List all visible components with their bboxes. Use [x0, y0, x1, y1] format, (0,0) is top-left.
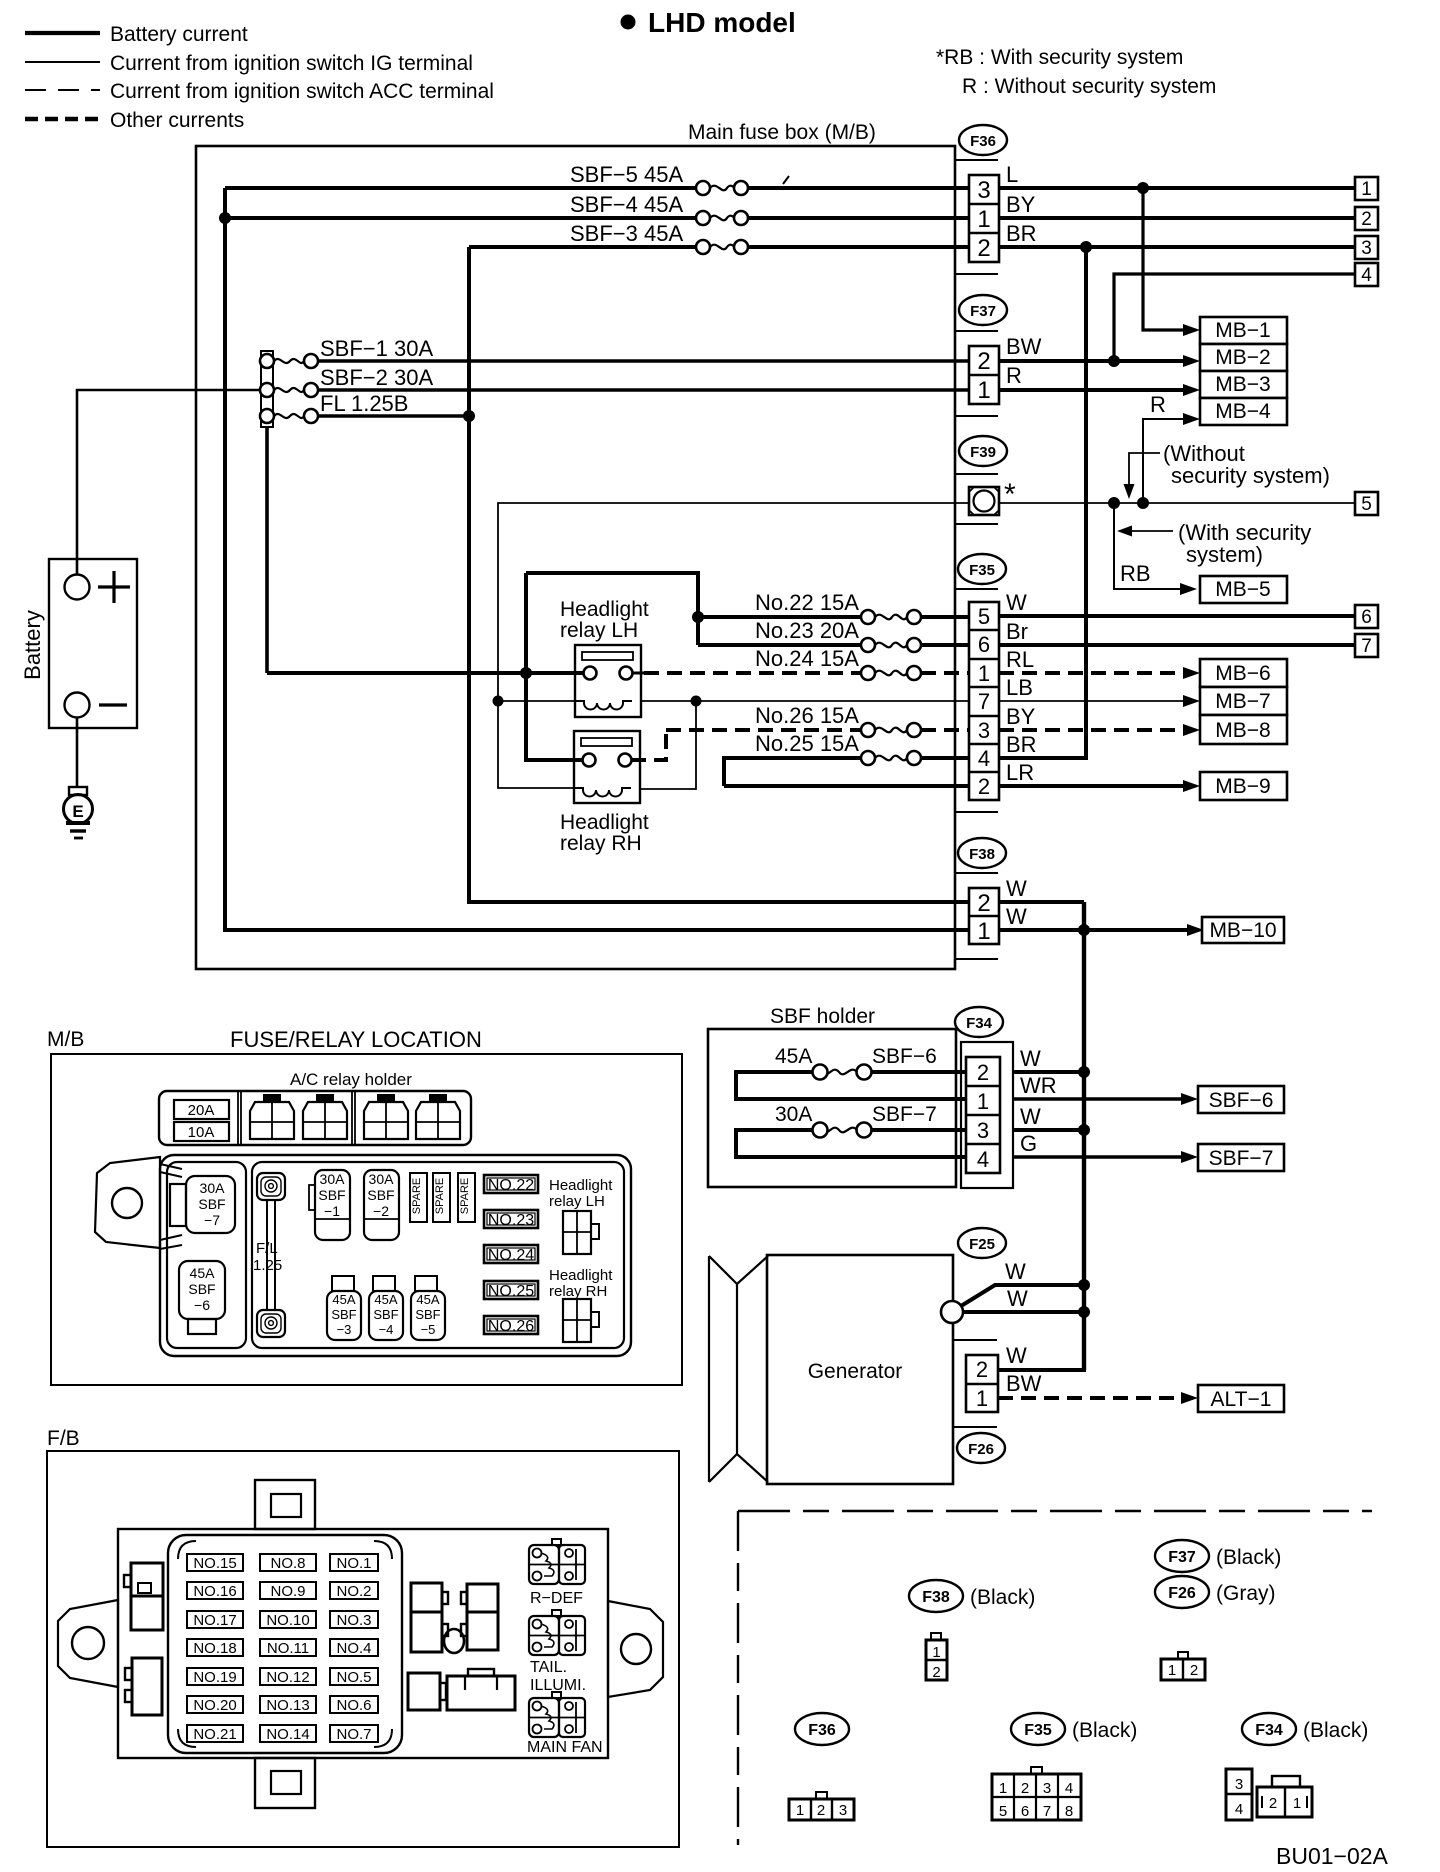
svg-text:NO.19: NO.19 [193, 1669, 236, 1686]
AC relay socket 4 [416, 1094, 460, 1139]
pinout F26 label [1155, 1576, 1276, 1608]
fusible link FL 1.25 icon [253, 1173, 285, 1337]
wire R branch to MB-4 [1143, 392, 1186, 503]
svg-text:SBF: SBF [318, 1187, 345, 1203]
FB lower connector 1 [408, 1673, 446, 1710]
wire BY F35 pin3 to MB-8 [999, 704, 1186, 730]
svg-text:3: 3 [1361, 238, 1372, 259]
svg-text:RB: RB [1120, 561, 1151, 586]
svg-text:F/L: F/L [256, 1240, 278, 1257]
svg-text:F34: F34 [1255, 1722, 1283, 1739]
connector F26 label [957, 1433, 1005, 1463]
svg-text:SBF−7: SBF−7 [872, 1103, 937, 1126]
svg-text:W: W [1006, 590, 1027, 615]
AC relay holder strip [159, 1091, 471, 1145]
wire box4 branch [1114, 274, 1355, 361]
connector F39 window stubs [955, 474, 998, 524]
svg-text:MB−1: MB−1 [1215, 319, 1270, 342]
svg-text:FUSE/RELAY LOCATION: FUSE/RELAY LOCATION [230, 1027, 482, 1052]
svg-text:3: 3 [839, 1802, 847, 1819]
fuse SBF-7 30A [736, 1103, 966, 1157]
svg-text:(Black): (Black) [1216, 1546, 1281, 1569]
svg-text:−5: −5 [421, 1322, 436, 1337]
svg-text:45A: 45A [374, 1292, 397, 1307]
svg-text:2: 2 [976, 1357, 988, 1382]
svg-text:NO.24: NO.24 [488, 1247, 534, 1264]
box 6 [1355, 605, 1378, 628]
svg-text:SBF−4 45A: SBF−4 45A [570, 192, 683, 217]
wire RL F35 pin1 to MB-6 [999, 647, 1186, 673]
connector SBF-7 [1198, 1144, 1284, 1171]
arrow SBF-6 [1181, 1093, 1198, 1105]
connector F36 label [959, 125, 1007, 155]
svg-text:NO.22: NO.22 [488, 1177, 534, 1194]
AC relay socket 2 [303, 1094, 347, 1139]
svg-text:−4: −4 [379, 1322, 394, 1337]
box 1 [1355, 177, 1378, 200]
arrow MB-2 [1183, 355, 1200, 367]
fuse NO.17 [187, 1611, 243, 1629]
svg-text:NO.15: NO.15 [193, 1555, 236, 1572]
fuse No.22 15A [698, 590, 969, 624]
pinout F36 connector [789, 1792, 854, 1820]
wire Br F35 pin6 to box7 [999, 619, 1355, 645]
strip dividers [238, 1091, 355, 1145]
connector F36 [969, 175, 999, 262]
svg-text:2: 2 [977, 235, 990, 262]
svg-text:security system): security system) [1171, 463, 1330, 488]
svg-text:NO.13: NO.13 [266, 1697, 309, 1714]
svg-text:system): system) [1186, 542, 1263, 567]
svg-text:20A: 20A [188, 1102, 215, 1119]
fuse NO.15 [187, 1554, 243, 1572]
wire battery positive to fuse bank [77, 390, 260, 574]
svg-text:ALT−1: ALT−1 [1211, 1388, 1272, 1411]
fuse NO.21 [187, 1725, 243, 1743]
svg-text:R : Without security system: R : Without security system [962, 75, 1216, 98]
wire WR F34 pin1 to SBF-6 [1013, 1073, 1184, 1099]
junction L branch [1137, 182, 1149, 194]
connector F38 window stubs [955, 873, 998, 959]
svg-text:NO.5: NO.5 [336, 1669, 371, 1686]
box 7 [1355, 634, 1378, 657]
box 2 [1355, 207, 1378, 230]
wire SBF-2 output R to F37 pin1 [318, 388, 969, 392]
svg-text:F35: F35 [1024, 1722, 1052, 1739]
fuse NO.23 slot [484, 1210, 538, 1229]
svg-text:*: * [1004, 478, 1016, 511]
svg-text:NO.4: NO.4 [336, 1640, 371, 1657]
rail SBF-3 x469 to F38 pin2 [469, 247, 969, 902]
wire MB-1 branch [1143, 188, 1186, 330]
fuse 10A [174, 1122, 229, 1141]
svg-text:MB−4: MB−4 [1215, 400, 1271, 423]
wire BW F37 pin2 to MB-2 [999, 334, 1186, 361]
svg-text:No.23 20A: No.23 20A [755, 618, 859, 643]
annotation with security system [1117, 520, 1311, 567]
svg-text:SPARE: SPARE [434, 1178, 446, 1214]
wire R F37 pin1 to MB-3 [999, 363, 1186, 390]
fuse NO.22 slot [484, 1175, 538, 1194]
svg-text:relay LH: relay LH [560, 619, 638, 642]
fuse NO.11 [260, 1639, 316, 1657]
fuse NO.4 [330, 1639, 378, 1657]
fuse NO.18 [187, 1639, 243, 1657]
svg-text:F36: F36 [970, 133, 996, 150]
svg-text:SPARE: SPARE [459, 1178, 471, 1214]
svg-text:NO.21: NO.21 [193, 1726, 236, 1743]
svg-text:W: W [1006, 876, 1027, 901]
connector F35 label [958, 554, 1006, 584]
fuse No.25 15A [724, 731, 969, 786]
fuse 45A SBF-3 icon [327, 1276, 361, 1340]
headlight relay RH location [549, 1267, 613, 1342]
svg-text:WR: WR [1020, 1073, 1057, 1098]
annotation without security system [1124, 441, 1330, 499]
svg-text:W: W [1007, 1286, 1028, 1311]
wire BR F36 pin2 to box3 [999, 221, 1355, 247]
svg-text:1: 1 [1293, 1795, 1301, 1812]
svg-text:7: 7 [1361, 636, 1372, 657]
svg-text:MAIN FAN: MAIN FAN [527, 1739, 603, 1756]
svg-text:NO.2: NO.2 [336, 1583, 371, 1600]
svg-text:NO.6: NO.6 [336, 1697, 371, 1714]
svg-text:W: W [1020, 1104, 1041, 1129]
svg-text:A/C relay holder: A/C relay holder [290, 1070, 412, 1089]
svg-text:NO.23: NO.23 [488, 1212, 534, 1229]
svg-text:Headlight: Headlight [549, 1267, 613, 1284]
junction bus F34 pin2 [1078, 1066, 1090, 1078]
headlight relay LH [560, 598, 649, 717]
FB right bracket [608, 1601, 663, 1697]
junction BW branch [1108, 355, 1120, 367]
wire W F34 pin3 to bus [1013, 1104, 1084, 1130]
spare fuse 2 [433, 1173, 450, 1222]
svg-text:E: E [72, 802, 83, 821]
connector MB-5 [1200, 576, 1287, 603]
svg-text:Headlight: Headlight [549, 1177, 613, 1194]
connector F38 label [958, 838, 1006, 868]
svg-text:NO.17: NO.17 [193, 1612, 236, 1629]
legend battery current [25, 23, 248, 46]
svg-text:SBF−7: SBF−7 [1209, 1147, 1274, 1170]
wire generator W upper [961, 1259, 1084, 1306]
connector F37 label [959, 295, 1007, 325]
svg-text:(Black): (Black) [1303, 1719, 1368, 1742]
svg-text:BU01−02A: BU01−02A [1276, 1843, 1389, 1869]
ground E [64, 787, 93, 838]
pinout F36 label [795, 1713, 849, 1745]
svg-text:NO.7: NO.7 [336, 1726, 371, 1743]
rail FL output down to relay feed [265, 427, 269, 673]
wire LB F35 pin7 to MB-7 [999, 675, 1186, 701]
svg-text:LHD model: LHD model [648, 7, 796, 38]
headlight relay RH [560, 731, 649, 855]
svg-text:R: R [1006, 363, 1022, 388]
fuse 20A [174, 1100, 229, 1119]
svg-text:Generator: Generator [808, 1360, 903, 1383]
svg-text:3: 3 [1043, 1780, 1051, 1797]
svg-text:NO.26: NO.26 [488, 1318, 534, 1335]
svg-text:Br: Br [1006, 619, 1028, 644]
fusible link FL 1.25B [260, 391, 408, 423]
svg-text:3: 3 [977, 177, 990, 204]
svg-text:SBF−5 45A: SBF−5 45A [570, 162, 683, 187]
generator output terminal [941, 1301, 963, 1323]
svg-text:1: 1 [976, 1386, 988, 1411]
box 3 [1355, 236, 1378, 259]
connector MB-2 [1200, 344, 1287, 371]
svg-text:LR: LR [1006, 760, 1034, 785]
fuse NO.2 [330, 1582, 378, 1600]
fuse bank terminal bar [261, 351, 273, 427]
battery [20, 559, 137, 728]
svg-text:NO.9: NO.9 [270, 1583, 305, 1600]
junction FL rail [463, 410, 475, 422]
MB body outline [160, 1155, 631, 1356]
wire SBF-3 45A row [469, 221, 969, 254]
MB left subpanel [167, 1162, 246, 1348]
fuse 30A SBF-2 icon [364, 1170, 399, 1240]
FB fuse frame [168, 1535, 402, 1753]
wire G F34 pin4 to SBF-7 [1013, 1131, 1184, 1157]
wire LR F35 pin2 to MB-9 [999, 760, 1186, 786]
svg-text:5: 5 [999, 1803, 1007, 1820]
svg-text:45A: 45A [416, 1292, 439, 1307]
svg-text:W: W [1020, 1046, 1041, 1071]
svg-text:F34: F34 [966, 1015, 993, 1032]
svg-text:30A: 30A [320, 1171, 346, 1187]
svg-text:Main fuse box (M/B): Main fuse box (M/B) [688, 121, 876, 144]
svg-text:G: G [1020, 1131, 1037, 1156]
wire relay LH coil row to F35 pin7 [498, 700, 969, 702]
fuse No.23 20A [698, 618, 969, 652]
fuse 30A SBF-7 icon [170, 1176, 235, 1233]
svg-text:F26: F26 [1168, 1585, 1196, 1602]
arrow ALT-1 [1181, 1392, 1198, 1404]
junction bus lower W [1078, 1306, 1090, 1318]
svg-text:NO.18: NO.18 [193, 1640, 236, 1657]
arrow MB-1 [1183, 324, 1200, 336]
FB middle connector 1 [411, 1583, 448, 1652]
svg-text:−6: −6 [194, 1297, 210, 1313]
svg-text:4: 4 [978, 746, 990, 771]
svg-text:Other currents: Other currents [110, 109, 244, 132]
svg-text:SBF: SBF [198, 1196, 225, 1212]
svg-text:1: 1 [999, 1780, 1007, 1797]
svg-text:L: L [1006, 162, 1018, 187]
rail battery bus x225 to F38 pin1 [225, 188, 969, 930]
fuse 45A SBF-4 icon [369, 1276, 403, 1340]
svg-text:−2: −2 [373, 1203, 389, 1219]
junction bus F34 pin3 [1078, 1124, 1090, 1136]
svg-text:4: 4 [977, 1147, 989, 1172]
connector MB-6 [1200, 659, 1287, 687]
wire generator W lower [963, 1286, 1084, 1312]
connector F34 label [955, 1007, 1003, 1037]
svg-text:(Black): (Black) [1072, 1719, 1137, 1742]
svg-text:2: 2 [817, 1802, 825, 1819]
svg-text:W: W [1005, 1259, 1026, 1284]
junction bus upper W [1078, 1279, 1090, 1291]
svg-text:SBF: SBF [331, 1307, 356, 1322]
svg-text:2: 2 [977, 348, 990, 375]
svg-text:Current from ignition switch I: Current from ignition switch IG terminal [110, 52, 473, 75]
svg-text:1: 1 [978, 661, 990, 686]
connector SBF-6 [1198, 1086, 1284, 1113]
wire W F38 pin1 to MB-10 [999, 904, 1190, 930]
fuse SBF-6 45A [736, 1045, 966, 1099]
fuse NO.14 [260, 1725, 316, 1743]
FB body [118, 1529, 608, 1758]
svg-text:NO.25: NO.25 [488, 1283, 534, 1300]
svg-text:1.25: 1.25 [253, 1257, 282, 1274]
svg-text:R−DEF: R−DEF [530, 1590, 583, 1607]
svg-text:1: 1 [796, 1802, 804, 1819]
pinout F35 label [1011, 1713, 1137, 1745]
fuse No.26 15A [666, 703, 969, 737]
svg-text:F37: F37 [970, 303, 996, 320]
svg-text:1: 1 [1361, 179, 1372, 200]
svg-text:NO.11: NO.11 [267, 1640, 309, 1657]
fuse NO.6 [330, 1696, 378, 1714]
wire W F35 pin5 to box6 [999, 590, 1355, 616]
svg-text:BR: BR [1006, 221, 1037, 246]
wire BY F36 pin1 to box2 [999, 192, 1355, 218]
connector F25 F26 window stubs [953, 1340, 997, 1427]
svg-text:−7: −7 [204, 1212, 220, 1228]
svg-text:SBF: SBF [415, 1307, 440, 1322]
connector MB-9 [1200, 772, 1287, 800]
svg-text:2: 2 [977, 1060, 989, 1085]
fuse SBF-2 30A [260, 365, 433, 397]
SBF holder box [708, 1029, 956, 1187]
fuse NO.10 [260, 1611, 316, 1629]
svg-text:MB−6: MB−6 [1215, 662, 1270, 685]
svg-text:45A: 45A [190, 1265, 216, 1281]
connector MB-7 [1200, 687, 1287, 715]
connector F35 window stubs [955, 589, 998, 812]
wire W F34 pin2 to bus [1013, 1046, 1084, 1072]
svg-text:Battery: Battery [20, 610, 45, 680]
arrow MB-6 [1183, 667, 1200, 679]
svg-text:BW: BW [1006, 1371, 1042, 1396]
svg-text:W: W [1006, 1343, 1027, 1368]
svg-text:8: 8 [1065, 1803, 1073, 1820]
svg-text:Headlight: Headlight [560, 598, 649, 621]
svg-text:5: 5 [1361, 494, 1372, 515]
junction star MB-4 branch [1137, 497, 1149, 509]
rail relay contact feed x526 [526, 573, 584, 760]
arrow MB-4 [1183, 413, 1200, 425]
MB location outer frame [51, 1054, 682, 1385]
rail BR to F35 pin4 [999, 247, 1086, 758]
wire RB branch to MB-5 [1114, 503, 1183, 589]
MB mounting bracket [95, 1157, 182, 1249]
fuse NO.1 [330, 1554, 378, 1572]
legend ACC terminal current [25, 80, 494, 103]
connector MB-3 [1200, 371, 1287, 398]
svg-text:LB: LB [1006, 675, 1033, 700]
svg-text:45A: 45A [775, 1045, 812, 1068]
connector F39 [969, 478, 1016, 515]
relay R-DEF [529, 1539, 585, 1607]
junction BR rail [1080, 241, 1092, 253]
spare fuse 1 [410, 1173, 427, 1222]
svg-text:MB−10: MB−10 [1209, 919, 1276, 942]
FB lower connector 2 [447, 1669, 515, 1710]
svg-text:F26: F26 [968, 1441, 994, 1458]
fuse NO.20 [187, 1696, 243, 1714]
svg-text:1: 1 [977, 377, 990, 404]
svg-text:1: 1 [977, 1089, 989, 1114]
svg-text:relay RH: relay RH [560, 832, 642, 855]
svg-text:10A: 10A [188, 1124, 215, 1141]
svg-text:NO.10: NO.10 [266, 1612, 309, 1629]
note security system [936, 46, 1216, 98]
FB top tab [255, 1480, 315, 1529]
svg-text:1: 1 [977, 918, 990, 945]
arrow MB-9 [1183, 780, 1200, 792]
fuse NO.13 [260, 1696, 316, 1714]
wire BW F26 pin1 to ALT-1 [998, 1371, 1184, 1398]
connector MB-1 [1200, 317, 1287, 344]
junction coil rail LH [493, 696, 504, 707]
pinout F37 label [1155, 1540, 1281, 1572]
fuse NO.19 [187, 1668, 243, 1686]
pinout F35 connector [992, 1767, 1081, 1820]
svg-text:SBF holder: SBF holder [770, 1005, 875, 1028]
svg-text:MB−8: MB−8 [1215, 719, 1270, 742]
svg-text:−3: −3 [337, 1322, 352, 1337]
connector MB-4 [1200, 398, 1287, 425]
wire star F39 to box5 [999, 502, 1355, 504]
pinout F34 connector [1226, 1769, 1312, 1820]
dashed layout border [738, 1510, 1372, 1512]
svg-text:30A: 30A [200, 1180, 226, 1196]
svg-text:3: 3 [1235, 1776, 1243, 1793]
wire W F25 pin2 to bus [998, 1312, 1084, 1370]
svg-text:NO.1: NO.1 [336, 1555, 371, 1572]
FB left connector upper [124, 1563, 163, 1630]
wire SBF-4 45A row [225, 192, 969, 225]
pinout F34 label [1242, 1713, 1368, 1745]
svg-text:4: 4 [1235, 1801, 1243, 1818]
junction relay LH feed [520, 667, 532, 679]
junction coil return [691, 696, 702, 707]
svg-text:F38: F38 [969, 846, 995, 863]
fuse NO.5 [330, 1668, 378, 1686]
wire FL to relay LH contact [267, 671, 584, 675]
wire FL output to rail [318, 414, 469, 418]
connector ALT-1 [1198, 1385, 1284, 1412]
svg-text:F25: F25 [969, 1236, 995, 1253]
FB middle connector 2 [461, 1584, 498, 1650]
connector MB-10 [1202, 917, 1284, 943]
wire L F36 pin3 to box1 [999, 162, 1355, 188]
svg-text:2: 2 [978, 774, 990, 799]
FB left connector lower [125, 1658, 162, 1715]
AC relay socket 3 [364, 1094, 408, 1139]
svg-text:MB−5: MB−5 [1215, 578, 1270, 601]
svg-text:(Gray): (Gray) [1216, 1582, 1276, 1605]
FB middle oval [444, 1629, 464, 1653]
fuse 30A SBF-1 icon [309, 1170, 350, 1240]
svg-text:BW: BW [1006, 334, 1042, 359]
svg-text:1: 1 [977, 206, 990, 233]
svg-text:2: 2 [1361, 209, 1372, 230]
wire battery negative to ground [76, 718, 79, 787]
